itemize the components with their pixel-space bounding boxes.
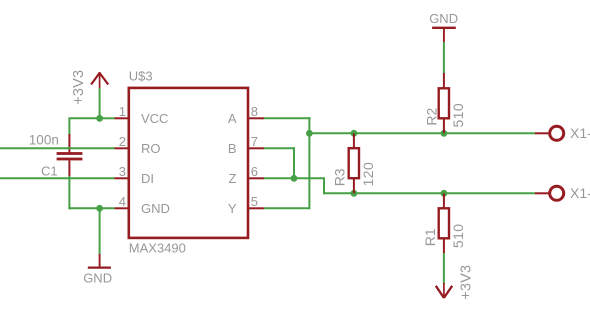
connector pad X1 top bbox=[550, 126, 564, 140]
wire Z step down bbox=[323, 178, 325, 194]
resistor R2 bbox=[439, 73, 449, 133]
wire VCC junction to pin 1 bbox=[100, 117, 115, 119]
junction B-Z node bbox=[291, 175, 298, 182]
svg-text:2: 2 bbox=[119, 134, 126, 149]
svg-text:8: 8 bbox=[251, 104, 258, 119]
pin stub X1 top bbox=[535, 132, 551, 134]
svg-text:1: 1 bbox=[119, 104, 126, 119]
svg-text:C1: C1 bbox=[41, 163, 58, 178]
resistor R1 bbox=[439, 193, 449, 253]
wire B-Z net to X1 bottom bbox=[324, 192, 535, 194]
wire down to C1 top bbox=[68, 118, 70, 135]
wire DI net from left edge bbox=[0, 177, 115, 179]
wire pin 6 Z run bbox=[264, 177, 325, 179]
wire C1 bottom to GND row bbox=[68, 176, 70, 209]
svg-text:R2: R2 bbox=[424, 107, 440, 125]
ground symbol (top right) bbox=[432, 28, 456, 42]
svg-text:GND: GND bbox=[429, 11, 458, 26]
svg-text:Y: Y bbox=[228, 201, 237, 216]
wire GND node down to ground bbox=[99, 208, 101, 254]
junction R1 top bbox=[441, 190, 448, 197]
wire VCC junction left to C1 bbox=[68, 117, 99, 119]
junction R2 bottom bbox=[441, 130, 448, 137]
svg-text:+3V3: +3V3 bbox=[459, 265, 475, 300]
svg-text:U$3: U$3 bbox=[129, 68, 153, 83]
pin 2 RO stub bbox=[115, 147, 129, 149]
pin 1 VCC stub bbox=[115, 117, 129, 119]
svg-text:RO: RO bbox=[141, 141, 161, 156]
wire A-Y net to X1 top bbox=[309, 132, 535, 134]
ground symbol (bottom left) bbox=[88, 254, 111, 268]
wire RO net from left edge bbox=[0, 147, 115, 149]
svg-text:GND: GND bbox=[83, 271, 112, 286]
svg-text:+3V3: +3V3 bbox=[71, 70, 87, 105]
svg-text:100n: 100n bbox=[29, 133, 59, 148]
junction GND node bbox=[96, 205, 103, 212]
svg-text:5: 5 bbox=[251, 194, 258, 209]
pin 8 A stub bbox=[248, 117, 264, 119]
wire C1 to pin 4 bbox=[68, 207, 114, 209]
junction VCC node bbox=[96, 115, 103, 122]
pin stub X1 bottom bbox=[535, 192, 551, 194]
pin 3 DI stub bbox=[115, 177, 129, 179]
svg-text:DI: DI bbox=[141, 171, 154, 186]
svg-text:510: 510 bbox=[450, 103, 466, 128]
pin 4 GND stub bbox=[115, 207, 129, 209]
svg-text:Z: Z bbox=[229, 171, 237, 186]
resistor R3 bbox=[349, 133, 359, 193]
wire +3V3 to VCC junction bbox=[99, 88, 101, 119]
wire pin 8 A to vertical bbox=[264, 117, 310, 119]
svg-text:6: 6 bbox=[251, 164, 258, 179]
wire ground to R2 bbox=[443, 42, 445, 74]
supply symbol +3V3 (bottom right) arrow bbox=[436, 283, 452, 298]
wire R1 to +3V3 bbox=[443, 253, 445, 284]
wire pin 7 B to vertical bbox=[264, 147, 295, 149]
svg-text:MAX3490: MAX3490 bbox=[129, 241, 186, 256]
wire pin 5 Y to vertical bbox=[264, 207, 309, 209]
svg-text:GND: GND bbox=[141, 201, 170, 216]
svg-text:A: A bbox=[228, 111, 237, 126]
svg-text:7: 7 bbox=[251, 134, 258, 149]
svg-text:X1-1: X1-1 bbox=[570, 125, 590, 141]
connector pad X1 bottom bbox=[550, 186, 564, 200]
supply symbol +3V3 (top left) arrow bbox=[91, 72, 108, 88]
wire B down to Z bbox=[293, 147, 295, 178]
junction R3 top bbox=[351, 130, 358, 137]
svg-text:R3: R3 bbox=[332, 168, 348, 186]
svg-text:120: 120 bbox=[360, 162, 376, 187]
svg-text:B: B bbox=[228, 141, 237, 156]
junction R3 bottom bbox=[351, 190, 358, 197]
svg-text:3: 3 bbox=[119, 164, 126, 179]
svg-text:510: 510 bbox=[450, 224, 466, 249]
IC U$3 body MAX3490 bbox=[129, 88, 248, 238]
pin 5 Y stub bbox=[248, 207, 264, 209]
capacitor C1 bbox=[57, 134, 83, 177]
pin 6 Z stub bbox=[248, 177, 264, 179]
svg-text:VCC: VCC bbox=[141, 111, 168, 126]
svg-text:X1-1: X1-1 bbox=[570, 185, 590, 201]
svg-text:4: 4 bbox=[119, 194, 126, 209]
svg-text:R1: R1 bbox=[422, 228, 438, 246]
junction A-Y node bbox=[306, 130, 313, 137]
pin 7 B stub bbox=[248, 147, 264, 149]
wire A-Y vertical bbox=[308, 117, 310, 209]
